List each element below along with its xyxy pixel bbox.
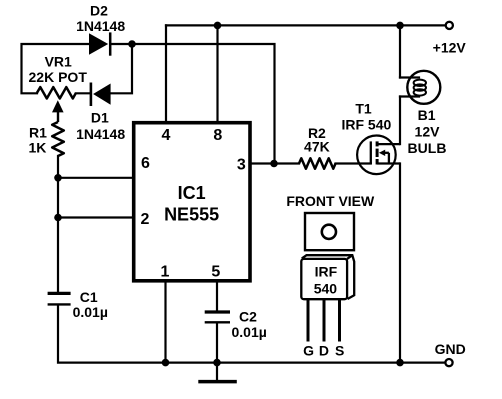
svg-text:D1: D1 bbox=[91, 109, 109, 125]
svg-text:S: S bbox=[335, 342, 344, 358]
svg-text:D2: D2 bbox=[90, 2, 108, 18]
junction node source ground bbox=[396, 359, 404, 367]
svg-text:D: D bbox=[319, 342, 329, 358]
wire left vertical pin6 to pin2 bbox=[57, 178, 59, 218]
potentiometer VR1 body bbox=[37, 87, 76, 98]
svg-text:T1: T1 bbox=[355, 100, 372, 116]
wire C1 bottom to ground rail bbox=[58, 305, 445, 362]
wire pin3 horizontal bbox=[250, 162, 299, 164]
svg-text:22K POT: 22K POT bbox=[29, 69, 88, 85]
svg-text:GND: GND bbox=[435, 341, 466, 357]
wire C2 to ground rail bbox=[216, 323, 218, 362]
svg-text:1: 1 bbox=[161, 264, 170, 281]
svg-text:1K: 1K bbox=[29, 140, 47, 156]
svg-text:C1: C1 bbox=[80, 289, 98, 305]
junction node bulb rail bbox=[396, 22, 404, 30]
svg-text:IRF 540: IRF 540 bbox=[341, 117, 391, 133]
junction node D2 cathode bbox=[128, 40, 136, 48]
wire pin2 to C1 bbox=[57, 218, 59, 293]
wire bulb rail top bbox=[399, 25, 401, 77]
ground symbol bbox=[198, 380, 237, 384]
wire R1 bottom lead bbox=[57, 156, 59, 178]
TO-220 mounting hole bbox=[322, 225, 336, 239]
svg-text:FRONT VIEW: FRONT VIEW bbox=[286, 193, 375, 209]
terminal +12V bbox=[446, 22, 453, 29]
svg-text:2: 2 bbox=[141, 211, 150, 228]
TO-220 front view tab bbox=[305, 213, 354, 250]
transistor T1 MOSFET bbox=[357, 136, 400, 175]
svg-text:6: 6 bbox=[141, 155, 150, 172]
svg-text:5: 5 bbox=[211, 264, 220, 281]
svg-text:NE555: NE555 bbox=[164, 205, 219, 225]
TO-220 leg G bbox=[307, 299, 310, 341]
svg-text:G: G bbox=[303, 342, 314, 358]
svg-text:12V: 12V bbox=[415, 124, 441, 140]
TO-220 leg S bbox=[338, 299, 341, 341]
wire pin2 horizontal bbox=[58, 216, 134, 218]
potentiometer VR1 wiper arrow bbox=[52, 100, 64, 122]
wire bulb to drain bbox=[399, 97, 401, 145]
capacitor C2 bbox=[205, 312, 230, 322]
svg-text:4: 4 bbox=[162, 127, 171, 144]
resistor R1 bbox=[52, 122, 64, 156]
wire node to pin3 riser bbox=[132, 44, 275, 164]
svg-text:3: 3 bbox=[237, 157, 246, 174]
wire D1 cathode to pot bbox=[76, 92, 91, 94]
TO-220 body bbox=[301, 255, 354, 299]
svg-text:47K: 47K bbox=[304, 139, 330, 155]
terminal GND bbox=[445, 359, 452, 366]
capacitor C1 bbox=[48, 293, 71, 304]
diode D2 bbox=[89, 32, 110, 55]
wire source to ground rail bbox=[399, 164, 401, 363]
junction node C2 ground bbox=[213, 359, 221, 367]
transistor T1 arrow bbox=[379, 150, 385, 156]
svg-text:C2: C2 bbox=[239, 309, 257, 325]
svg-text:IC1: IC1 bbox=[178, 183, 206, 203]
svg-text:R1: R1 bbox=[29, 125, 47, 141]
svg-text:1N4148: 1N4148 bbox=[76, 126, 125, 142]
wire pin1 vertical bbox=[164, 281, 166, 363]
wire pin6 horizontal bbox=[58, 177, 134, 179]
junction node pin6 left bbox=[54, 174, 62, 182]
wire top rail +12V bbox=[166, 24, 445, 26]
svg-text:VR1: VR1 bbox=[45, 53, 72, 69]
wire pin5 to C2 bbox=[216, 281, 218, 311]
svg-text:BULB: BULB bbox=[408, 140, 447, 156]
wire bulb bottom stub bbox=[400, 95, 419, 97]
svg-text:8: 8 bbox=[213, 127, 222, 144]
wire pin8 vertical bbox=[216, 25, 218, 122]
diode D1 bbox=[91, 83, 111, 107]
TO-220 leg D bbox=[323, 299, 326, 341]
svg-text:1N4148: 1N4148 bbox=[76, 18, 125, 34]
IC U1 NE555 box bbox=[134, 123, 250, 281]
svg-text:IRF: IRF bbox=[315, 264, 338, 280]
svg-text:0.01µ: 0.01µ bbox=[232, 324, 267, 340]
svg-text:0.01µ: 0.01µ bbox=[73, 304, 108, 320]
svg-text:+12V: +12V bbox=[433, 39, 467, 55]
wire ground stub bbox=[216, 363, 218, 380]
wire left loop bbox=[22, 44, 90, 93]
svg-text:540: 540 bbox=[314, 281, 338, 297]
wire pin4 vertical bbox=[165, 25, 167, 122]
junction node pin3 bbox=[270, 160, 278, 168]
wire bulb top stub bbox=[400, 76, 419, 78]
wire node down to D1 bbox=[111, 44, 132, 93]
wire D2 cathode to node bbox=[110, 43, 132, 45]
junction node pin2 left bbox=[54, 214, 62, 222]
bulb B1 bbox=[407, 71, 440, 104]
junction node pin8 rail bbox=[214, 22, 222, 30]
svg-text:B1: B1 bbox=[418, 107, 436, 123]
junction node pin1 ground bbox=[162, 359, 170, 367]
wire R2 to gate bbox=[336, 162, 371, 164]
resistor R2 bbox=[299, 158, 336, 168]
